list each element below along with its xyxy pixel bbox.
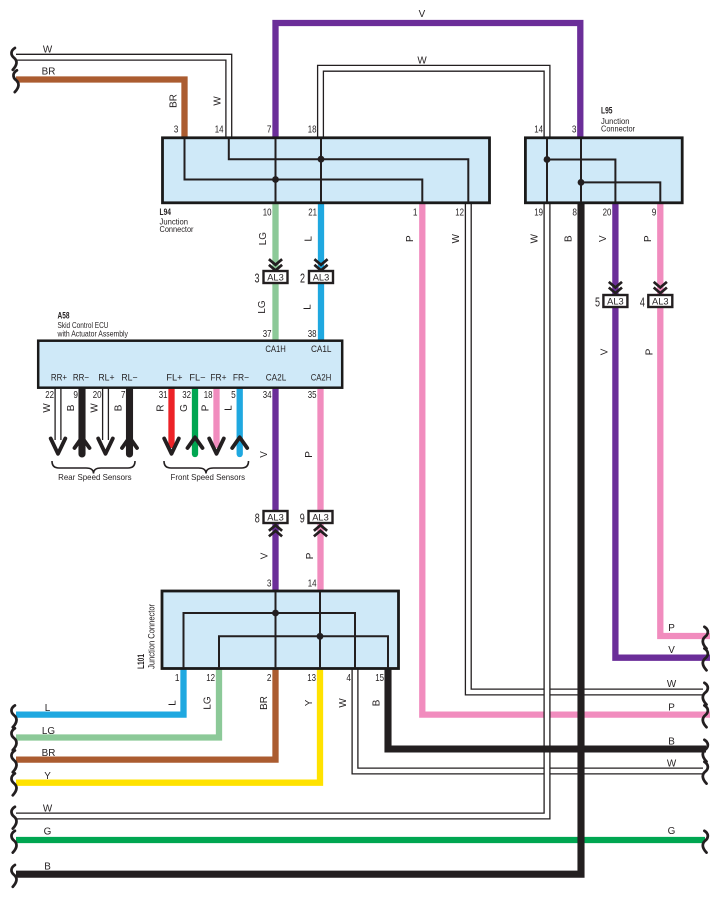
svg-text:AL3: AL3	[312, 513, 329, 523]
svg-text:P: P	[305, 552, 316, 559]
svg-text:14: 14	[215, 125, 224, 136]
svg-text:14: 14	[308, 579, 317, 590]
svg-text:5: 5	[231, 390, 236, 401]
wire W (L101 pin 4, exits right)	[355, 668, 703, 771]
L95 internal branch to pin9	[581, 182, 660, 202]
svg-text:FR+: FR+	[210, 373, 226, 383]
svg-text:RL−: RL−	[121, 373, 137, 383]
svg-text:V: V	[598, 235, 609, 242]
svg-text:B: B	[114, 404, 125, 411]
arrow down RL+	[98, 439, 113, 454]
connector AL3 no.5	[595, 282, 627, 310]
svg-text:12: 12	[206, 673, 215, 684]
wire W (ECU pin 20 RL+)	[102, 388, 109, 440]
svg-text:RL+: RL+	[98, 373, 114, 383]
wire W (top left, to L94 pin 14)	[16, 57, 229, 140]
squiggle W top left	[11, 48, 16, 70]
svg-text:L: L	[168, 700, 179, 706]
svg-text:W: W	[213, 96, 224, 106]
svg-text:W: W	[451, 233, 462, 243]
junction connector L94 box	[163, 138, 490, 203]
svg-text:7: 7	[121, 390, 126, 401]
arrow down FR+	[209, 439, 224, 454]
svg-text:38: 38	[308, 329, 317, 340]
svg-text:37: 37	[263, 329, 272, 340]
svg-text:G: G	[668, 826, 676, 837]
svg-text:21: 21	[308, 208, 317, 219]
svg-text:W: W	[667, 679, 677, 690]
svg-text:RR+: RR+	[51, 373, 67, 383]
svg-text:AL3: AL3	[652, 297, 669, 307]
svg-text:AL3: AL3	[607, 297, 624, 307]
squiggle W left	[11, 807, 16, 829]
junction connector L101 box	[162, 591, 399, 669]
L101 internal branch pin12-pin15	[219, 636, 388, 668]
connector AL3 no.4	[640, 282, 672, 310]
svg-text:P: P	[668, 623, 675, 634]
connector AL3 no.2	[300, 259, 333, 285]
squiggle P right 2	[703, 705, 708, 727]
arrow up RR-	[75, 437, 90, 448]
svg-text:BR: BR	[169, 94, 180, 108]
wire V (L95 pin 20 via AL3, exits right)	[615, 202, 710, 658]
wire W (ECU pin 22 RR+)	[54, 388, 61, 440]
svg-text:B: B	[372, 699, 383, 706]
svg-text:P: P	[643, 235, 654, 242]
svg-text:20: 20	[603, 208, 612, 219]
connector AL3 no.8	[255, 511, 288, 536]
squiggle BR left	[11, 750, 16, 772]
svg-text:Y: Y	[304, 699, 315, 706]
svg-text:RR−: RR−	[73, 373, 89, 383]
svg-text:1: 1	[413, 208, 418, 219]
svg-text:5: 5	[595, 296, 600, 310]
svg-text:P: P	[405, 235, 416, 242]
svg-text:G: G	[179, 404, 190, 412]
svg-text:W: W	[90, 403, 101, 413]
squiggle G right	[703, 831, 708, 853]
L94 internal wire pin3-pin1	[185, 139, 423, 202]
L94 internal wire pin14-pin12	[229, 139, 468, 202]
squiggle BR top left	[13, 70, 18, 92]
wire BR (top left, to L94 pin 3)	[16, 80, 185, 141]
wire R (ECU pin 31 FL+)	[168, 388, 174, 448]
svg-text:AL3: AL3	[267, 273, 284, 283]
svg-text:V: V	[599, 348, 610, 355]
svg-text:BR: BR	[42, 67, 56, 78]
junction dot L94 (275.5,179.5)	[272, 176, 279, 183]
svg-text:R: R	[156, 404, 167, 411]
svg-text:14: 14	[534, 125, 543, 136]
svg-text:4: 4	[346, 673, 351, 684]
wire B (ECU pin 7 RL-)	[126, 388, 133, 454]
squiggle P right	[703, 627, 708, 649]
svg-text:CA1L: CA1L	[311, 344, 332, 354]
wire P (L94 pin 1, exits right)	[422, 202, 710, 715]
svg-text:15: 15	[375, 673, 384, 684]
svg-text:Rear Speed Sensors: Rear Speed Sensors	[58, 473, 132, 482]
arrow up RL-	[122, 437, 137, 448]
svg-text:19: 19	[534, 208, 543, 219]
svg-text:L: L	[304, 235, 315, 241]
svg-text:9: 9	[652, 208, 657, 219]
svg-text:B: B	[564, 235, 575, 242]
wire P (L95 pin 9 via AL3, exits right)	[660, 202, 710, 636]
brace rear speed sensors	[52, 461, 135, 474]
svg-text:3: 3	[572, 125, 577, 136]
wire LG (L94 pin 10 to ECU pin 37 via AL3)	[272, 202, 278, 342]
svg-text:P: P	[201, 404, 212, 411]
junction dot L95 (581,182.4)	[578, 179, 585, 186]
svg-text:L95: L95	[601, 105, 613, 116]
svg-text:1: 1	[175, 673, 180, 684]
svg-text:W: W	[338, 698, 349, 708]
wire L (L94 pin 21 to ECU pin 38 via AL3)	[318, 202, 324, 342]
wire G (bottom, full width)	[16, 837, 705, 843]
L101 internal wire pin14-pin13	[319, 592, 321, 668]
svg-text:8: 8	[572, 208, 577, 219]
squiggle LG left	[11, 728, 16, 750]
svg-text:LG: LG	[257, 300, 268, 313]
svg-text:2: 2	[300, 272, 305, 286]
svg-text:AL3: AL3	[267, 513, 284, 523]
arrow down RR+	[51, 439, 66, 454]
svg-text:31: 31	[159, 390, 168, 401]
svg-text:W: W	[530, 233, 541, 243]
arrow up FL-	[188, 437, 203, 448]
arrow up FR-	[232, 437, 247, 448]
junction connector L95 box	[525, 138, 682, 203]
wire B (L95 pin 8, exits left bottom)	[16, 202, 581, 874]
junction dot L101 (275.5,613)	[272, 610, 279, 617]
wire P (ECU pin 18 FR+)	[213, 388, 219, 448]
svg-text:7: 7	[267, 125, 272, 136]
wire B (ECU pin 9 RR-)	[78, 388, 85, 454]
junction dot L101 (320,636.3)	[317, 633, 324, 640]
svg-text:Y: Y	[44, 771, 51, 782]
wire V (L94 pin 7 to L95 pin 3 across top)	[276, 23, 581, 140]
svg-text:B: B	[66, 404, 77, 411]
svg-text:32: 32	[182, 390, 191, 401]
L94 internal wire pin7-pin10	[275, 139, 277, 202]
L95 internal branch to pin20	[547, 160, 615, 203]
junction dot L95 (547,159.5)	[544, 156, 551, 163]
squiggle B right	[703, 740, 708, 762]
svg-text:V: V	[419, 9, 426, 20]
svg-text:AL3: AL3	[313, 273, 330, 283]
svg-text:Connector: Connector	[601, 124, 635, 134]
squiggle W right	[703, 683, 708, 705]
wire L (L101 pin 1, exits left)	[16, 668, 184, 715]
wire LG (L101 pin 12, exits left)	[16, 668, 219, 738]
svg-text:Connector: Connector	[160, 224, 194, 234]
wire G (ECU pin 32 FL-)	[192, 388, 198, 454]
svg-text:3: 3	[174, 125, 179, 136]
svg-text:18: 18	[308, 125, 317, 136]
brace front speed sensors	[164, 461, 249, 474]
svg-text:V: V	[668, 645, 675, 656]
svg-text:G: G	[44, 827, 52, 838]
connector AL3 no.9	[300, 511, 333, 536]
svg-text:W: W	[43, 804, 53, 815]
svg-text:8: 8	[255, 512, 260, 526]
svg-text:W: W	[667, 758, 677, 769]
squiggle G left	[11, 831, 16, 853]
svg-text:LG: LG	[203, 696, 214, 709]
svg-text:P: P	[304, 451, 315, 458]
svg-text:CA2H: CA2H	[311, 373, 332, 383]
L94 internal wire pin18-pin21	[320, 139, 322, 202]
svg-text:B: B	[668, 736, 675, 747]
wire W (L95 pin 19, exits left bottom)	[16, 202, 547, 816]
svg-text:B: B	[44, 862, 51, 873]
svg-text:13: 13	[307, 673, 316, 684]
svg-text:V: V	[259, 451, 270, 458]
svg-text:Front Speed Sensors: Front Speed Sensors	[171, 473, 246, 482]
L101 internal branch pin1-pin4	[184, 613, 356, 668]
junction dot L94 (321,159.2)	[318, 156, 325, 163]
svg-text:A58: A58	[58, 310, 70, 321]
squiggle V right	[703, 649, 708, 671]
ECU A58 box	[38, 341, 342, 388]
svg-text:CA2L: CA2L	[266, 373, 287, 383]
svg-text:LG: LG	[42, 726, 55, 737]
svg-text:3: 3	[255, 272, 260, 286]
svg-text:LG: LG	[258, 232, 269, 245]
svg-text:20: 20	[93, 390, 102, 401]
svg-text:FL+: FL+	[166, 373, 182, 383]
svg-text:35: 35	[308, 390, 317, 401]
svg-text:BR: BR	[42, 748, 56, 759]
svg-text:10: 10	[263, 208, 272, 219]
L95 internal wire pin14-pin19	[546, 139, 548, 202]
svg-text:W: W	[42, 403, 53, 413]
svg-text:18: 18	[204, 390, 213, 401]
svg-text:with Actuator Assembly: with Actuator Assembly	[57, 329, 129, 338]
svg-text:22: 22	[45, 390, 54, 401]
svg-text:L: L	[45, 703, 51, 714]
svg-text:CA1H: CA1H	[265, 344, 286, 354]
svg-text:9: 9	[300, 512, 305, 526]
arrow down FL+	[164, 439, 179, 454]
wire W (L94 pin 18 to L95 pin 14)	[321, 68, 548, 140]
svg-text:P: P	[644, 348, 655, 355]
squiggle B left	[11, 865, 16, 887]
squiggle L left	[11, 705, 16, 727]
svg-text:12: 12	[455, 208, 464, 219]
wire W (L94 pin 12, exits right)	[468, 202, 703, 692]
squiggle W right 2	[703, 762, 708, 784]
wire B (L101 pin 15, exits right)	[388, 668, 706, 749]
svg-text:V: V	[260, 552, 271, 559]
wire V (ECU pin 34 to L101 pin 3 via AL3)	[272, 388, 278, 592]
svg-text:Junction Connector: Junction Connector	[146, 604, 156, 669]
squiggle Y left	[11, 774, 16, 796]
L101 internal wire pin3-pin2	[275, 592, 277, 668]
svg-text:W: W	[417, 56, 427, 67]
svg-text:4: 4	[640, 296, 645, 310]
svg-text:FR−: FR−	[233, 373, 249, 383]
L95 internal wire pin3-pin8	[580, 139, 582, 202]
wire BR (L101 pin 2, exits left)	[16, 668, 276, 760]
svg-text:L: L	[224, 405, 235, 411]
wire Y (L101 pin 13, exits left)	[16, 668, 320, 783]
svg-text:34: 34	[263, 390, 272, 401]
svg-text:BR: BR	[259, 696, 270, 710]
svg-text:9: 9	[73, 390, 78, 401]
svg-text:2: 2	[267, 673, 272, 684]
wire P (ECU pin 35 to L101 pin 14 via AL3)	[317, 388, 323, 592]
svg-text:FL−: FL−	[189, 373, 205, 383]
wire L (ECU pin 5 FR-)	[237, 388, 243, 454]
svg-text:L: L	[303, 304, 314, 310]
svg-text:3: 3	[267, 579, 272, 590]
svg-text:W: W	[43, 45, 53, 56]
connector AL3 no.3	[255, 259, 288, 285]
svg-text:P: P	[668, 703, 675, 714]
